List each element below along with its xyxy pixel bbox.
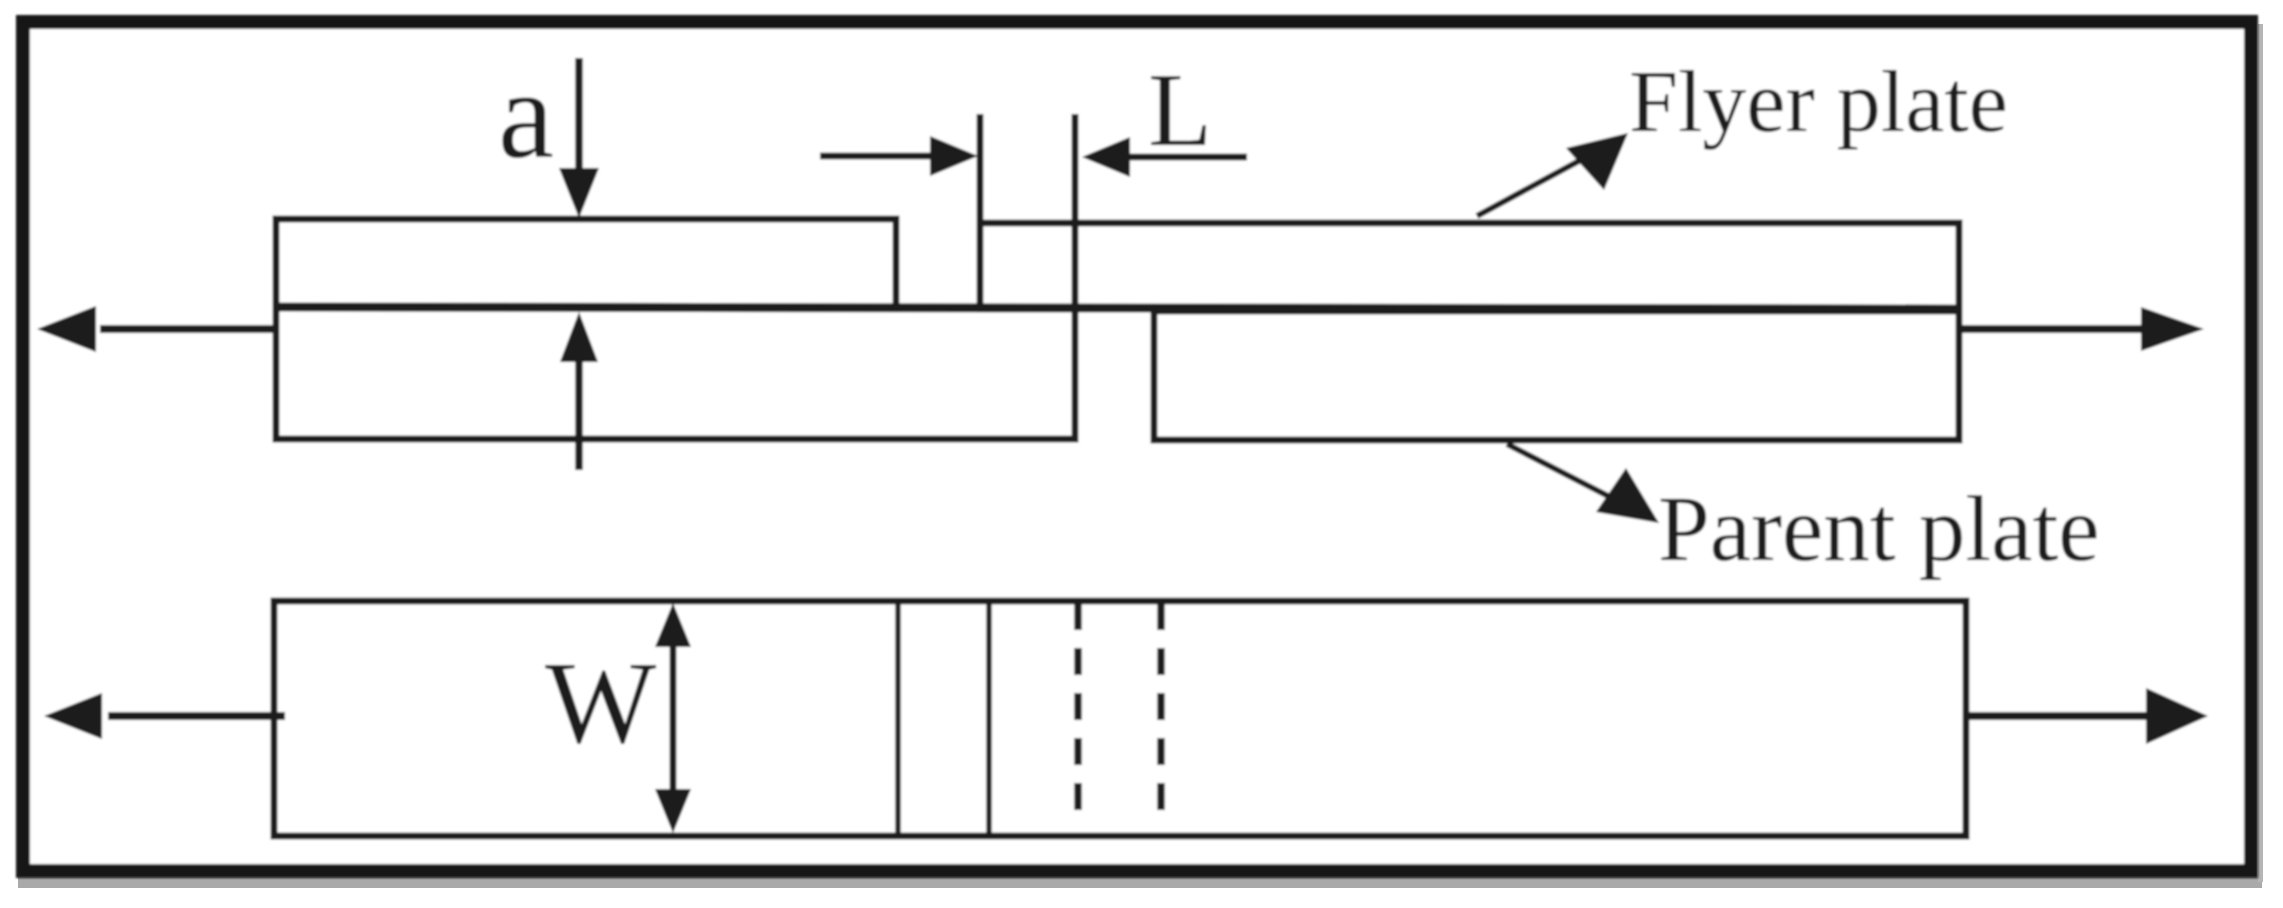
svg-text:L: L — [1148, 51, 1212, 168]
svg-text:Parent plate: Parent plate — [1658, 478, 2100, 581]
svg-text:W: W — [545, 637, 657, 768]
svg-text:Flyer plate: Flyer plate — [1629, 54, 2008, 151]
svg-text:a: a — [498, 46, 554, 185]
